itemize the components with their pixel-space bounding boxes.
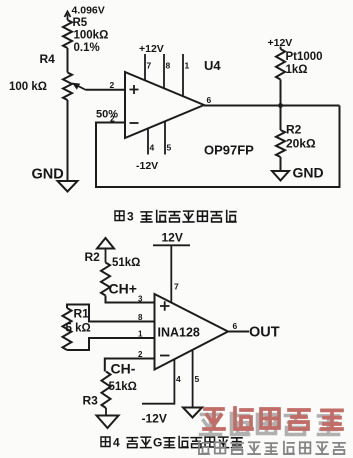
ground symbol (R4) [58, 181, 78, 192]
svg-text:Pt1000: Pt1000 [286, 51, 323, 63]
svg-text:R4: R4 [40, 52, 56, 66]
svg-text:R1: R1 [74, 307, 90, 321]
wire node to R2 [280, 106, 282, 131]
svg-text:12V: 12V [162, 231, 183, 245]
supply arrow up (R2 top, fig4) [97, 238, 114, 263]
caption figure 3 [115, 210, 236, 224]
svg-text:8: 8 [138, 313, 143, 322]
svg-text:100kΩ: 100kΩ [74, 30, 109, 42]
svg-text:50%: 50% [96, 109, 118, 121]
wire Pt1000 to output node [280, 80, 282, 106]
wire CH- to -IN pin 2 [105, 359, 155, 372]
svg-text:6: 6 [233, 321, 238, 331]
svg-text:R2: R2 [85, 250, 101, 264]
wire R1 top to pin 8 [67, 305, 155, 322]
svg-text:7: 7 [174, 282, 179, 292]
svg-text:G: G [153, 436, 162, 450]
pin 8 wire [163, 54, 165, 88]
pin 5 wire to ground [192, 350, 194, 408]
pin 7 wire (12V to INA128) [170, 245, 172, 302]
svg-text:0.1%: 0.1% [74, 42, 100, 54]
svg-text:CH+: CH+ [109, 281, 137, 297]
plus symbol (U4 +IN) [130, 85, 139, 94]
pin 5 wire [164, 121, 166, 154]
svg-text:GND: GND [32, 167, 64, 183]
resistor R2 (fig4) [101, 263, 110, 296]
node 4.096V supply arrow [65, 12, 71, 21]
svg-text:51kΩ: 51kΩ [112, 257, 140, 269]
pin 7 wire [144, 54, 146, 81]
svg-text:2: 2 [138, 350, 143, 359]
svg-text:4: 4 [113, 436, 120, 450]
svg-text:-12V: -12V [142, 412, 167, 426]
svg-text:1kΩ: 1kΩ [286, 64, 308, 76]
potentiometer R4 [63, 73, 72, 101]
svg-text:R5: R5 [73, 17, 88, 29]
svg-text:R3: R3 [83, 394, 99, 408]
plus symbol (INA128 +IN) [160, 301, 170, 310]
wire R1 bottom to pin 1 [67, 338, 155, 350]
resistor R5 [63, 20, 72, 48]
watermark gray 射频和天线设计专家 [199, 442, 345, 454]
svg-text:GND: GND [293, 165, 324, 181]
svg-text:1: 1 [185, 61, 190, 71]
svg-text:6: 6 [207, 95, 212, 105]
svg-text:3: 3 [138, 295, 143, 304]
minus symbol (U4 -IN) [130, 122, 139, 124]
net 12V rail bar [153, 231, 190, 246]
svg-text:1: 1 [138, 330, 143, 339]
wire +12V to Pt1000 [280, 47, 282, 50]
svg-text:2: 2 [110, 80, 115, 90]
svg-text:OP97FP: OP97FP [204, 143, 254, 158]
svg-text:7: 7 [147, 61, 152, 71]
svg-text:-12V: -12V [136, 160, 158, 172]
svg-text:5: 5 [195, 374, 200, 384]
wire op-amp output [204, 105, 340, 107]
svg-text:3: 3 [127, 210, 134, 224]
svg-text:U4: U4 [204, 58, 221, 73]
svg-text:R2: R2 [286, 123, 302, 137]
wire output pin 6 [228, 331, 249, 333]
amplifier INA128 [155, 294, 229, 370]
ground symbol (pin 5) [183, 408, 202, 418]
wire inverting input feedback loop [96, 106, 340, 188]
svg-text:5 kΩ: 5 kΩ [66, 323, 91, 335]
resistor R2 [276, 130, 285, 157]
wire R2 to ground [280, 157, 282, 171]
svg-text:4: 4 [150, 143, 155, 153]
watermark red 易迪拓培训 [204, 408, 342, 429]
watermark ghost 易迪拓培训 [201, 414, 339, 435]
svg-text:4: 4 [176, 374, 181, 384]
wiper arrow of R4 [72, 83, 86, 90]
wire R4 to ground [67, 100, 69, 181]
op-amp U4 [125, 72, 204, 138]
pin 4 wire to -12V [142, 359, 174, 404]
svg-text:OUT: OUT [249, 325, 280, 341]
svg-text:100 kΩ: 100 kΩ [9, 81, 47, 93]
svg-text:INA128: INA128 [158, 326, 200, 340]
resistor Pt1000 [276, 49, 285, 80]
resistor R3 [102, 372, 111, 409]
supply arrow down (R3 bottom) [97, 408, 119, 428]
svg-text:+12V: +12V [139, 43, 164, 55]
junction node [278, 103, 283, 108]
svg-text:5: 5 [167, 143, 172, 153]
caption figure 4 [101, 436, 242, 450]
svg-text:8: 8 [166, 61, 171, 71]
pin 1 wire [182, 54, 184, 96]
svg-text:51kΩ: 51kΩ [109, 381, 137, 393]
resistor R1 gain [63, 308, 72, 350]
minus symbol (INA128 -IN) [160, 355, 170, 357]
svg-text:20kΩ: 20kΩ [286, 137, 316, 151]
ground symbol (R2) [272, 171, 289, 181]
svg-text:4.096V: 4.096V [72, 5, 105, 17]
pin 4 wire [147, 128, 149, 154]
wire CH+ to +IN pin 3 [106, 296, 155, 303]
wire R5 to R4 [67, 48, 69, 73]
wire wiper to op-amp noninverting input [86, 89, 125, 91]
svg-text:CH-: CH- [111, 361, 136, 377]
